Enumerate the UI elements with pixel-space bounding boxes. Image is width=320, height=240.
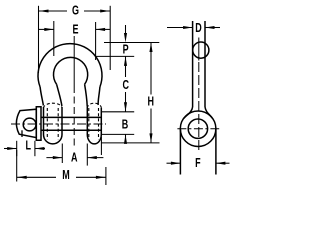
pin collar bbox=[36, 107, 41, 140]
side view body right edge bbox=[215, 129, 217, 175]
dimension A line bbox=[46, 157, 62, 159]
dimension C line bbox=[125, 56, 127, 77]
dimension L extension line left bbox=[16, 141, 18, 156]
side view pin hole circle bbox=[188, 119, 207, 138]
right ear top hidden arc bbox=[87, 103, 101, 108]
dimension F line bbox=[167, 162, 181, 164]
shackle vertical centerline bbox=[73, 36, 75, 86]
extension line bow inner top bbox=[96, 55, 135, 57]
extension line body bottom bbox=[102, 142, 160, 144]
svg-text:A: A bbox=[71, 151, 78, 165]
svg-text:G: G bbox=[72, 4, 79, 18]
dimension G line bbox=[39, 10, 68, 12]
dimension E line bbox=[39, 28, 54, 30]
pin head outline bbox=[16, 109, 36, 137]
left leg inner edge bbox=[57, 84, 62, 106]
side view shank left edge bbox=[192, 21, 194, 107]
dimension M extension line right bbox=[105, 167, 107, 185]
dimension F label bbox=[193, 156, 203, 169]
left ear top hidden arc bbox=[44, 103, 63, 108]
side view vertical centerline bbox=[198, 62, 200, 152]
extension line bow top bbox=[104, 42, 159, 44]
dimension B extension line bottom bbox=[101, 133, 134, 135]
side view ear boss circle bbox=[180, 111, 216, 147]
dimension H line bbox=[150, 43, 152, 95]
shackle bow inner arc (front view) bbox=[53, 57, 87, 84]
dimension D line bbox=[167, 27, 193, 29]
side view shank right edge bbox=[204, 21, 206, 107]
dimension L extension line right bbox=[34, 141, 36, 156]
right ear side extension line bbox=[100, 137, 102, 155]
dimension A extension line right bbox=[86, 144, 88, 166]
dimension E extension line right bbox=[95, 22, 97, 60]
left ear outline bbox=[44, 107, 63, 144]
dimension P arrow bbox=[125, 25, 127, 34]
svg-text:B: B bbox=[122, 118, 129, 132]
svg-text:D: D bbox=[195, 22, 202, 36]
right ear pin hole hidden lines bbox=[88, 108, 90, 140]
pin eye circle bbox=[23, 118, 36, 131]
pin centerline bbox=[11, 123, 106, 125]
dimension G extension line left bbox=[38, 6, 40, 73]
side view horizontal centerline bbox=[177, 128, 219, 130]
right leg outer edge bbox=[98, 87, 100, 105]
dimension L line bbox=[4, 148, 17, 150]
svg-text:L: L bbox=[26, 139, 32, 153]
svg-text:E: E bbox=[72, 23, 78, 37]
svg-text:H: H bbox=[148, 95, 155, 109]
pin shaft top edge bbox=[41, 116, 101, 118]
dimension E extension line left bbox=[53, 21, 55, 56]
right ear outline bbox=[87, 106, 101, 144]
pin shaft bottom edge bbox=[41, 129, 101, 131]
svg-text:M: M bbox=[62, 169, 69, 183]
side view right flare bbox=[205, 107, 213, 119]
svg-text:F: F bbox=[195, 157, 201, 171]
side view bow cross-section circle bbox=[193, 42, 209, 58]
dimension M line bbox=[17, 176, 56, 178]
dimension G extension line right bbox=[109, 6, 111, 70]
dimension M extension line left bbox=[16, 150, 18, 182]
dimension A extension line left bbox=[61, 144, 63, 164]
dimension B arrow bottom bbox=[125, 134, 127, 142]
svg-text:C: C bbox=[123, 79, 130, 93]
left leg outer edge bbox=[40, 87, 43, 106]
shackle bow outer arc (front view) bbox=[38, 44, 102, 87]
side view left flare bbox=[184, 107, 193, 119]
svg-text:P: P bbox=[123, 43, 129, 57]
right leg inner edge bbox=[85, 84, 88, 106]
side view upper centerline bbox=[198, 38, 200, 61]
left ear pin hole hidden lines bbox=[46, 108, 48, 140]
dimension B extension line top bbox=[101, 111, 134, 113]
side view body left edge bbox=[179, 129, 181, 175]
